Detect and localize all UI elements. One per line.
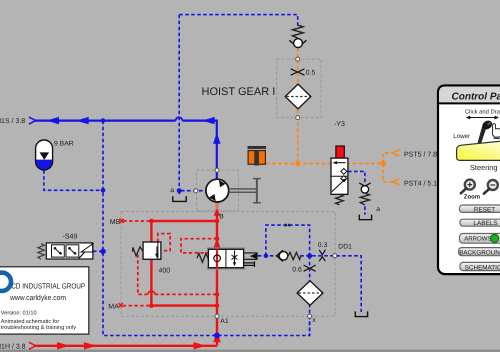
svg-text:Steering: Steering [470, 163, 498, 172]
svg-text:A1: A1 [220, 318, 229, 325]
svg-text:ARROWS: ARROWS [464, 236, 491, 243]
svg-text:troubleshooting & training onl: troubleshooting & training only [1, 324, 76, 331]
svg-text:CD INDUSTRIAL GROUP: CD INDUSTRIAL GROUP [11, 281, 85, 290]
svg-text:400: 400 [159, 267, 171, 274]
svg-text:H1S / 3.8: H1S / 3.8 [0, 117, 25, 125]
svg-text:www.carldyke.com: www.carldyke.com [9, 293, 66, 302]
svg-text:a: a [376, 206, 380, 213]
svg-text:-Y3: -Y3 [334, 121, 345, 128]
svg-text:PST4 / 5.1: PST4 / 5.1 [404, 179, 437, 187]
svg-text:0.3: 0.3 [318, 242, 328, 249]
svg-text:0.6: 0.6 [292, 266, 302, 273]
svg-text:B: B [219, 213, 224, 220]
svg-text:x: x [312, 317, 316, 324]
svg-text:Control Panel: Control Panel [452, 92, 500, 103]
svg-text:-S49: -S49 [63, 234, 78, 241]
svg-text:H1H / 3.8: H1H / 3.8 [0, 343, 26, 351]
svg-text:PST5 / 7.8: PST5 / 7.8 [404, 150, 437, 158]
svg-text:Zoom: Zoom [464, 194, 480, 201]
svg-text:MA: MA [108, 303, 119, 310]
svg-text:Version: 01/10: Version: 01/10 [1, 309, 37, 316]
svg-text:a: a [170, 187, 174, 194]
svg-text:SCHEMATIC: SCHEMATIC [465, 264, 500, 271]
svg-text:MB: MB [110, 219, 121, 226]
svg-text:Lower: Lower [453, 133, 470, 140]
svg-text:9 BAR: 9 BAR [54, 141, 74, 148]
svg-text:Click and Drag: Click and Drag [465, 108, 500, 115]
svg-text:HOIST GEAR I: HOIST GEAR I [202, 86, 276, 98]
svg-text:LABELS: LABELS [473, 220, 497, 227]
svg-text:RESET: RESET [474, 206, 495, 213]
svg-text:DD1: DD1 [338, 243, 352, 250]
svg-text:BACKGROUND: BACKGROUND [459, 249, 500, 256]
svg-text:0.5: 0.5 [306, 70, 316, 77]
